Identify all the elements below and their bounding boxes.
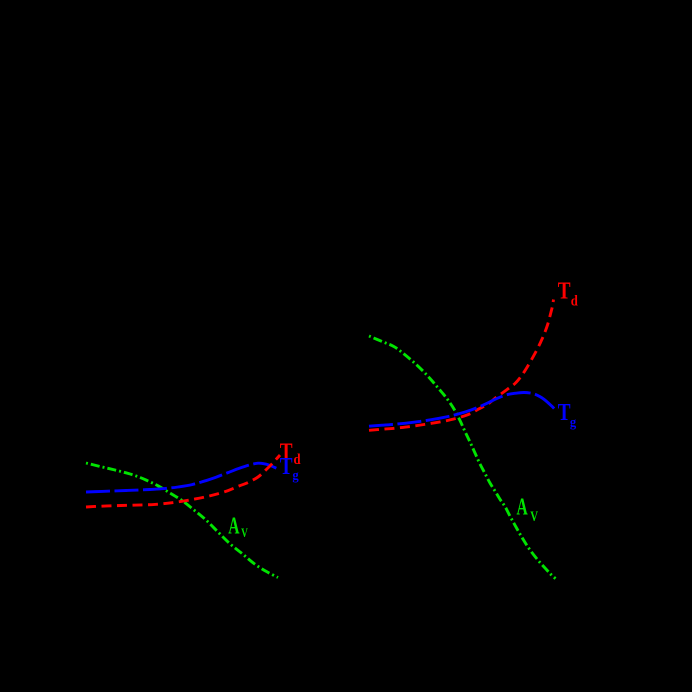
label Tg right (558, 399, 577, 430)
svg-text:g: g (570, 414, 577, 430)
svg-text:T: T (280, 453, 293, 480)
svg-text:A: A (228, 513, 240, 539)
curve Tg right (blue long dash) (369, 393, 555, 427)
svg-text:V: V (241, 527, 248, 541)
label Av left (228, 513, 248, 540)
svg-text:d: d (571, 294, 578, 310)
label Td left (280, 438, 301, 468)
curve Av left (green dash-dot) (86, 463, 278, 578)
curve Td right (red short dash) (369, 300, 554, 431)
label Tg left (280, 453, 299, 482)
svg-text:g: g (292, 467, 299, 483)
svg-text:V: V (530, 507, 538, 524)
svg-text:A: A (517, 494, 529, 520)
curve Av right (green dash-dot) (369, 336, 556, 579)
label Td right (558, 278, 578, 310)
curve Td left (red short dash) (86, 455, 280, 507)
label Av right (517, 494, 539, 524)
curve Tg left (blue long dash) (86, 463, 277, 492)
svg-text:T: T (558, 278, 571, 305)
